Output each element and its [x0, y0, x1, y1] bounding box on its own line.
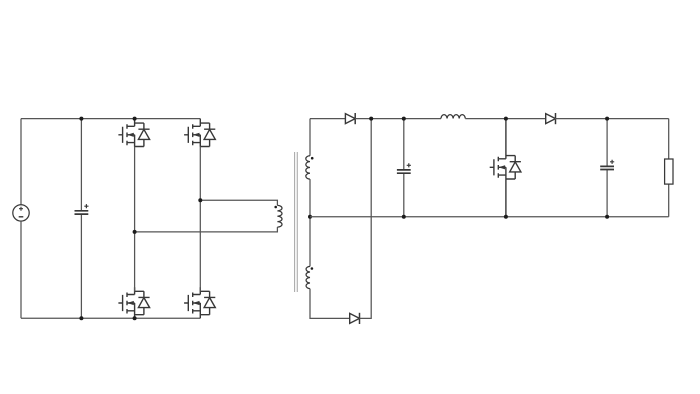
capacitor C2: [397, 119, 411, 217]
wire top rail D3 to load: [555, 118, 669, 120]
diode D2: [350, 313, 360, 324]
node top rail / C3 top: [605, 117, 609, 121]
node bottom rail / C2 bottom: [402, 215, 406, 219]
node top rail / C2 top: [402, 117, 406, 121]
node input rail / Q1 drain: [133, 117, 137, 121]
node bottom rail / C3 bottom: [605, 215, 609, 219]
node right leg midpoint: [198, 198, 202, 202]
load resistor R1: [665, 119, 673, 217]
inductor L1: [441, 115, 465, 119]
polarity dot (secondary 1): [311, 157, 314, 160]
wire bridge to primary top: [200, 200, 277, 205]
wire secondary top lead: [309, 119, 311, 156]
wire left bridge leg: [134, 147, 136, 292]
transformer core: [295, 152, 298, 292]
mosfet Q4 (bottom-right): [184, 287, 215, 318]
node left leg midpoint: [133, 230, 137, 234]
wire right bridge leg: [199, 147, 201, 292]
mosfet Q1 (top-left): [118, 119, 149, 147]
node top rail / D2 cathode: [369, 117, 373, 121]
transformer secondary winding 1: [306, 156, 310, 179]
capacitor C3: [600, 119, 614, 217]
node center tap: [308, 215, 312, 219]
node top rail / Q5 drain: [504, 117, 508, 121]
wire top rail D1 to inductor: [355, 118, 441, 120]
diode D3: [546, 113, 556, 124]
voltage source V1: [13, 205, 29, 221]
wire primary bottom to bridge: [135, 227, 278, 232]
wire input left vertical (bottom): [20, 221, 22, 318]
capacitor C1 (input bus): [75, 119, 89, 319]
transformer secondary winding 2: [306, 266, 310, 288]
wire secondary bottom lead: [310, 289, 350, 319]
mosfet Q2 (top-right): [184, 119, 215, 147]
wire bottom input rail: [21, 317, 200, 319]
wire top rail inductor to D3: [465, 118, 545, 120]
wire D2 up to top rail: [360, 119, 372, 319]
wire secondary middle: [309, 179, 311, 266]
wire input left vertical (top): [20, 119, 22, 205]
polarity dot (primary): [274, 206, 277, 209]
mosfet Q5 (shunt): [490, 119, 521, 217]
diode D1: [345, 113, 355, 124]
mosfet Q3 (bottom-left): [118, 287, 149, 318]
wire rectifier top (anode D1): [310, 118, 345, 120]
polarity dot (secondary 2): [311, 267, 314, 270]
node bottom rail / Q5 source: [504, 215, 508, 219]
node input rail / C1 top: [79, 117, 83, 121]
node bottom rail / C1 bottom: [79, 316, 83, 320]
wire top input rail: [21, 118, 200, 120]
wire output bottom rail: [310, 216, 669, 218]
transformer primary winding: [277, 205, 282, 227]
node bottom rail / Q3 source: [133, 316, 137, 320]
